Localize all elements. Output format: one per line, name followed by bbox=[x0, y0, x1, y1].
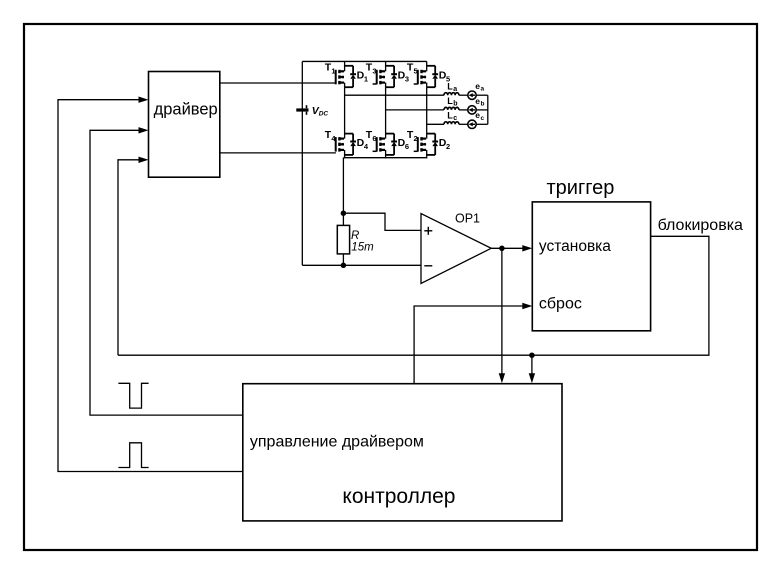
source eb arrow bbox=[471, 109, 475, 111]
wire leg 2 midpoint vertical (phase b node) bbox=[385, 87, 387, 133]
source eb (circle) bbox=[468, 106, 476, 114]
wire from controller to driver input 1 bbox=[58, 100, 243, 472]
wire DC bus below battery bbox=[301, 115, 303, 266]
source ec arrow bbox=[471, 123, 475, 125]
wire driver output to top gates (T1 gate) bbox=[220, 82, 336, 84]
svg-text:OP1: OP1 bbox=[455, 212, 480, 226]
op-amp OP1 (comparator triangle) bbox=[421, 214, 491, 284]
wire блокировка output from trigger bbox=[118, 236, 709, 355]
svg-text:сброс: сброс bbox=[539, 296, 582, 313]
source ea arrow bbox=[471, 94, 475, 96]
node shunt top (junction dot) bbox=[341, 210, 347, 216]
wire DC bus positive (left vertical) bbox=[301, 61, 303, 105]
pulse waveform symbol (inverted pulse) on driver-input-2 wire bbox=[118, 383, 148, 408]
svg-text:c: c bbox=[453, 115, 457, 122]
svg-text:2: 2 bbox=[414, 134, 418, 143]
inductor La bbox=[444, 93, 459, 95]
node op-amp output (junction dot) bbox=[499, 246, 505, 252]
wire leg 3 midpoint vertical (phase c node) bbox=[426, 87, 428, 133]
wire source ea to neutral bbox=[476, 94, 487, 96]
driver input arrow 2 bbox=[139, 127, 149, 133]
svg-text:6: 6 bbox=[372, 134, 376, 143]
node blocking line junction (dot) bbox=[529, 352, 535, 358]
wire leg 1 midpoint vertical (phase a node) bbox=[344, 87, 346, 133]
transistor T6 (lower MOSFET leg 2) bbox=[376, 137, 378, 152]
op-amp + input mark bbox=[424, 230, 432, 232]
svg-text:1: 1 bbox=[364, 75, 368, 84]
wire source eb to neutral bbox=[476, 109, 487, 111]
wire controller to сброс input bbox=[414, 306, 522, 384]
svg-text:триггер: триггер bbox=[547, 177, 615, 199]
trigger block (триггер) bbox=[532, 202, 650, 331]
svg-text:c: c bbox=[481, 115, 485, 122]
svg-text:контроллер: контроллер bbox=[342, 485, 455, 508]
driver input arrow 1 bbox=[139, 97, 149, 103]
transistor T5 (upper MOSFET leg 3) bbox=[417, 70, 419, 85]
svg-text:2: 2 bbox=[446, 142, 450, 151]
wire inductor Lb to source eb bbox=[459, 109, 468, 111]
wire from controller to driver input 2 bbox=[90, 130, 243, 415]
svg-text:драйвер: драйвер bbox=[154, 100, 218, 118]
transistor T3 (upper MOSFET leg 2) bbox=[376, 70, 378, 85]
svg-text:e: e bbox=[475, 81, 480, 91]
svg-text:DC: DC bbox=[319, 110, 329, 117]
arrow into установка input bbox=[522, 245, 532, 251]
transistor T4 (lower MOSFET leg 1) bbox=[335, 137, 337, 152]
svg-text:a: a bbox=[481, 86, 485, 93]
wire bottom DC rail bbox=[343, 157, 426, 159]
svg-text:R: R bbox=[351, 230, 359, 242]
wire shunt top to op-amp + input bbox=[343, 213, 421, 230]
wire DC bus bottom to shunt bbox=[302, 264, 343, 266]
wire phase c to inductor bbox=[427, 123, 444, 125]
svg-text:3: 3 bbox=[405, 75, 409, 84]
svg-text:5: 5 bbox=[414, 67, 418, 76]
wire bottom rail down to shunt bbox=[342, 158, 344, 214]
battery V_DC symbol bbox=[296, 108, 308, 111]
resistor R 15m (shunt) bbox=[337, 225, 349, 254]
svg-text:установка: установка bbox=[539, 238, 611, 255]
transistor T2 (lower MOSFET leg 3) bbox=[417, 137, 419, 152]
svg-text:e: e bbox=[475, 96, 480, 106]
wire blocking-line to driver input 3 bbox=[118, 160, 139, 355]
svg-text:управление драйвером: управление драйвером bbox=[250, 433, 424, 450]
inductor Lc bbox=[444, 122, 459, 125]
svg-text:b: b bbox=[453, 101, 457, 108]
svg-text:3: 3 bbox=[372, 67, 376, 76]
svg-text:блокировка: блокировка bbox=[658, 217, 743, 234]
transistor T1 (upper MOSFET leg 1) bbox=[335, 70, 337, 85]
op-amp - input mark bbox=[424, 265, 432, 267]
pulse waveform symbol (positive pulse) on driver-input-1 wire bbox=[118, 443, 148, 468]
wire shunt bottom to op-amp - input bbox=[343, 264, 421, 266]
wire source ec to neutral bbox=[476, 123, 487, 125]
svg-text:b: b bbox=[481, 100, 485, 107]
inductor Lb bbox=[444, 107, 459, 110]
svg-text:1: 1 bbox=[331, 67, 335, 76]
wire neutral (right vertical joining sources) bbox=[487, 95, 489, 124]
svg-text:e: e bbox=[475, 110, 480, 120]
driver input arrow 3 bbox=[139, 157, 149, 163]
svg-text:a: a bbox=[453, 86, 457, 93]
svg-text:6: 6 bbox=[405, 142, 409, 151]
wire op-amp output bbox=[491, 247, 522, 249]
svg-text:15m: 15m bbox=[351, 241, 374, 253]
wire op-amp output down to controller bbox=[501, 248, 503, 374]
wire top DC rail bbox=[302, 60, 426, 62]
wire junction down to controller bbox=[531, 355, 533, 374]
wire driver output to bottom gates (T4 gate) bbox=[220, 152, 336, 154]
source ec (circle) bbox=[468, 120, 476, 128]
source ea (circle) bbox=[468, 91, 476, 99]
node shunt bottom (junction dot) bbox=[341, 263, 347, 269]
controller block (контроллер) bbox=[243, 384, 562, 521]
wire phase a to inductor bbox=[345, 94, 444, 96]
wire inductor La to source ea bbox=[459, 94, 468, 96]
wire phase b to inductor bbox=[386, 109, 444, 111]
driver block (драйвер) bbox=[149, 72, 220, 178]
wire inductor Lc to source ec bbox=[459, 123, 468, 125]
